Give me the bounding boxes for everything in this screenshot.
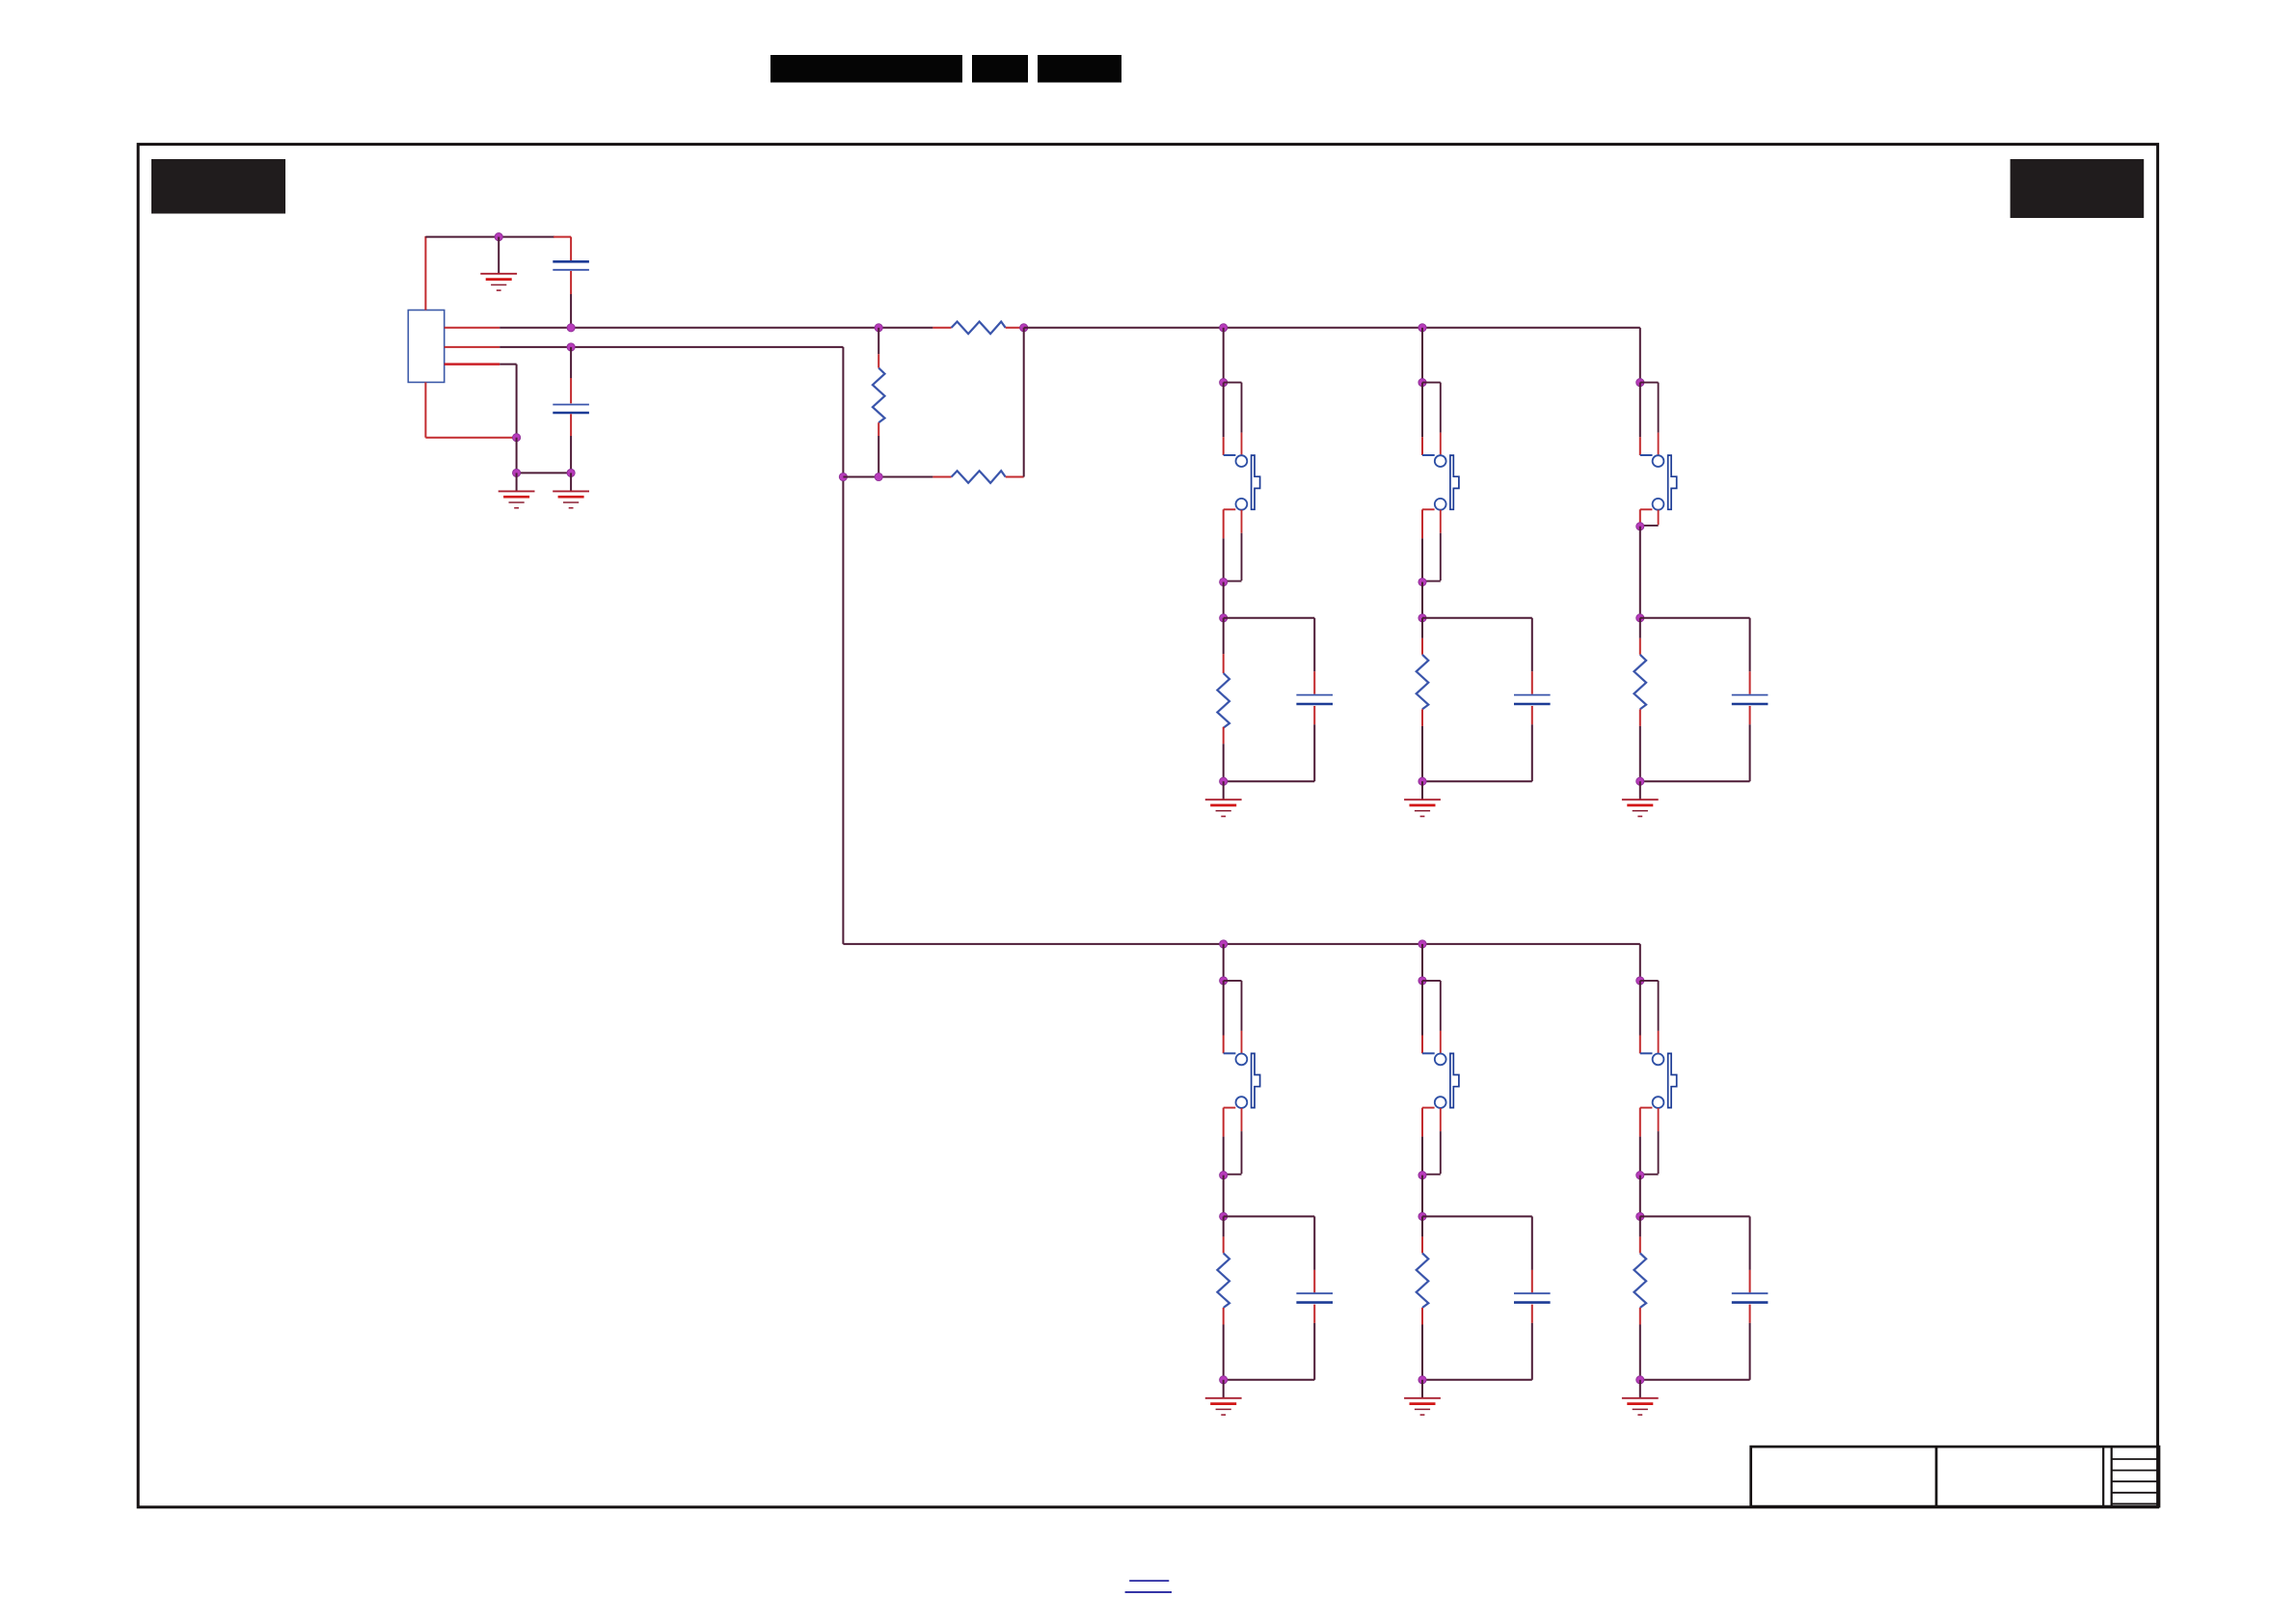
wire: bottom rail of R5/C4 to ground node	[1422, 780, 1532, 782]
switch SW4 lower pin loop wire	[1224, 1108, 1242, 1176]
junction dot: node above R6/C5	[1636, 614, 1644, 622]
capacitor C1 (top filter cap)	[553, 237, 589, 328]
wire: bottom rail of R7/C6 to ground node	[1224, 1379, 1315, 1381]
junction dot: lower rail at SW4 column	[1220, 940, 1228, 948]
ground	[1622, 1380, 1659, 1415]
junction dot at SW5 lower pins	[1418, 1172, 1426, 1179]
switch SW2 upper pin loop wire	[1422, 383, 1441, 456]
wire: J1 pin1 to keys bus (net KEY1)	[445, 327, 933, 329]
junction dot at SW2 lower pins	[1418, 578, 1426, 585]
junction dot: keys bus at SW1 column	[1220, 324, 1228, 332]
wire: lower rail of resistor network	[843, 476, 932, 478]
ground	[1404, 781, 1441, 816]
switch SW5 upper pin loop wire	[1422, 981, 1441, 1054]
junction dot: pin3/pin5 ground tie	[513, 434, 521, 442]
wire: bottom rail of R9/C8 to ground node	[1640, 1379, 1750, 1381]
junction dot: node above R9/C8	[1636, 1212, 1644, 1220]
wire: bottom rail of R6/C5 to ground node	[1640, 780, 1750, 782]
wire: SW3 to RC node	[1639, 527, 1641, 618]
junction dot: C2 at pin2 wire	[567, 343, 575, 351]
wire: rail drop to SW4	[1223, 944, 1225, 981]
switch SW4 body (contacts and actuator)	[1224, 1053, 1260, 1108]
switch SW3 body (contacts and actuator)	[1640, 455, 1677, 510]
junction dot: top rail at ground stem	[495, 233, 502, 241]
switch SW2 body (contacts and actuator)	[1422, 455, 1459, 510]
junction dot: ground node below R8	[1418, 1376, 1426, 1384]
junction dot at SW6 lower pins	[1636, 1172, 1644, 1179]
wire: SW5 to RC node	[1421, 1176, 1423, 1217]
junction dot: ground node below R4	[1220, 777, 1228, 785]
wire: bus drop to SW1	[1223, 328, 1225, 383]
wire: rail drop to SW6	[1639, 944, 1641, 981]
junction dot: node A (left of R1)	[875, 324, 882, 332]
wire: ground tie down to ground rail	[517, 438, 572, 474]
switch SW6 lower pin loop wire	[1640, 1108, 1659, 1176]
wire: keys bus from node B to key columns	[1024, 327, 1640, 329]
junction dot: node above R7/C6	[1220, 1212, 1228, 1220]
wire: KEY2 net drop to lower rail	[842, 347, 844, 944]
junction dot: keys bus at SW2 column	[1418, 324, 1426, 332]
junction dot: SW5 upper pins	[1418, 977, 1426, 985]
capacitor C5	[1732, 695, 1769, 782]
resistor R5	[1417, 618, 1429, 781]
switch SW2 lower pin loop wire	[1422, 509, 1441, 582]
junction dot: ground rail left	[513, 469, 521, 476]
junction dot at SW4 lower pins	[1220, 1172, 1228, 1179]
redaction box: sheet title part 1 (top of page)	[770, 55, 962, 83]
wire: J1 pin2 (net KEY2)	[445, 346, 844, 348]
ground (left of C2)	[499, 473, 535, 507]
capacitor C4	[1514, 695, 1551, 782]
wire: SW1 to RC node	[1223, 582, 1225, 618]
junction dot at SW3 lower pins	[1636, 523, 1644, 530]
switch SW1 body (contacts and actuator)	[1224, 455, 1260, 510]
junction dot: R2 bottom	[875, 473, 882, 480]
wire: J1 pin5 (left bottom) to ground net	[425, 382, 516, 437]
redaction box: note block top-left	[151, 159, 285, 214]
switch SW5 body (contacts and actuator)	[1422, 1053, 1459, 1108]
wire: bottom rail of R8/C7 to ground node	[1422, 1379, 1532, 1381]
junction dot: SW2 upper pins	[1418, 379, 1426, 387]
junction dot: node B (right of R1)	[1020, 324, 1028, 332]
junction dot: SW4 upper pins	[1220, 977, 1228, 985]
switch SW4 upper pin loop wire	[1224, 981, 1242, 1054]
wire: bus drop to SW2	[1421, 328, 1423, 383]
resistor R6	[1634, 618, 1647, 781]
title block	[1751, 1447, 2159, 1506]
switch SW3 upper pin loop wire	[1640, 383, 1659, 456]
wire: SW6 to RC node	[1639, 1176, 1641, 1217]
ground	[1404, 1380, 1441, 1415]
wire: node to capacitor C8	[1640, 1216, 1750, 1292]
capacitor C3	[1296, 695, 1333, 782]
wire: SW4 to RC node	[1223, 1176, 1225, 1217]
junction dot: ground node below R7	[1220, 1376, 1228, 1384]
wire: rail drop to SW5	[1421, 944, 1423, 981]
junction dot: lower rail at SW5 column	[1418, 940, 1426, 948]
resistor R8	[1417, 1216, 1429, 1379]
capacitor C7	[1514, 1293, 1551, 1380]
capacitor C8	[1732, 1293, 1769, 1380]
capacitor C2 (lower filter cap)	[553, 347, 589, 474]
resistor R2 (vertical)	[873, 328, 885, 477]
ground (below C2)	[553, 473, 589, 507]
wire: J1 pin3 to ground net	[445, 365, 517, 438]
wire: node to capacitor C3	[1224, 618, 1315, 694]
connector J1	[408, 311, 444, 383]
wire: node to capacitor C4	[1422, 618, 1532, 694]
switch SW1 upper pin loop wire	[1224, 383, 1242, 456]
switch SW1 lower pin loop wire	[1224, 509, 1242, 582]
junction dot: ground node below R6	[1636, 777, 1644, 785]
junction dot: node above R4/C3	[1220, 614, 1228, 622]
wire: J1 pin4 (left top) up to VCC rail	[424, 236, 426, 311]
junction dot: ground node below R5	[1418, 777, 1426, 785]
junction dot: SW6 upper pins	[1636, 977, 1644, 985]
capacitor C6	[1296, 1293, 1333, 1380]
resistor R3 (horizontal bottom)	[932, 471, 1023, 483]
ground (top rail)	[480, 237, 517, 291]
ground	[1205, 1380, 1242, 1415]
junction dot: SW3 upper pins	[1636, 379, 1644, 387]
ground	[1205, 781, 1242, 816]
resistor R7	[1217, 1216, 1229, 1379]
junction dot: SW1 upper pins	[1220, 379, 1228, 387]
resistor R9	[1634, 1216, 1647, 1379]
wire: top rail above J1	[425, 236, 571, 238]
wire: bottom rail of R4/C3 to ground node	[1224, 780, 1315, 782]
switch SW6 upper pin loop wire	[1640, 981, 1659, 1054]
switch SW5 lower pin loop wire	[1422, 1108, 1441, 1176]
redaction box: sheet title part 2	[972, 55, 1028, 83]
wire: bus drop to SW3	[1639, 328, 1641, 383]
wire: right side of resistor loop	[1023, 328, 1025, 477]
wire: node to capacitor C7	[1422, 1216, 1532, 1292]
switch SW3 lower pin loop wire	[1640, 509, 1659, 527]
wire: lower keys rail (net KEY2)	[843, 943, 1639, 945]
resistor R1 (series, horizontal top)	[932, 322, 1023, 335]
junction dot: C1 at pin1 wire	[567, 324, 575, 332]
junction dot: ground node below R9	[1636, 1376, 1644, 1384]
footer redacted link lines	[1125, 1581, 1172, 1592]
junction dot: node above R5/C4	[1418, 614, 1426, 622]
wire: node to capacitor C6	[1224, 1216, 1315, 1292]
junction dot at SW1 lower pins	[1220, 578, 1228, 585]
junction dot: node above R8/C7	[1418, 1212, 1426, 1220]
redaction box: note block top-right	[2011, 159, 2145, 218]
ground	[1622, 781, 1659, 816]
junction dot: ground rail right (C2 bottom)	[567, 469, 575, 476]
resistor R4	[1217, 618, 1229, 781]
switch SW6 body (contacts and actuator)	[1640, 1053, 1677, 1108]
wire: SW2 to RC node	[1421, 582, 1423, 618]
junction dot: KEY2 at lower rail	[839, 473, 847, 480]
wire: node to capacitor C5	[1640, 618, 1750, 694]
redaction box: sheet title part 3	[1038, 55, 1121, 83]
schematic frame border	[138, 145, 2157, 1507]
